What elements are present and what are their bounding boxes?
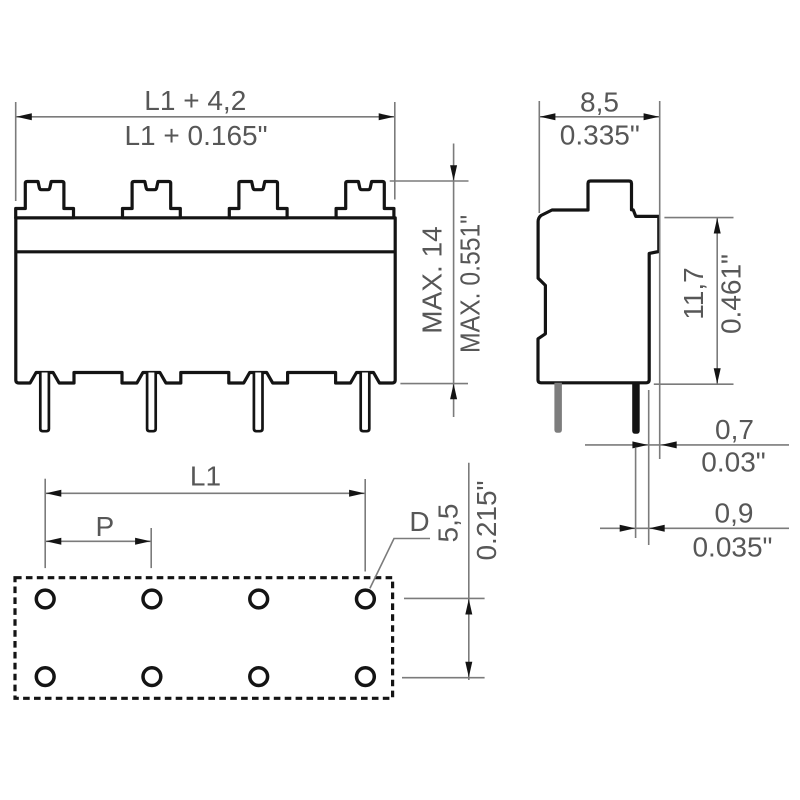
footprint: drill hole row 2 column 3 <box>250 668 268 686</box>
svg-text:L1 + 4,2: L1 + 4,2 <box>144 85 246 116</box>
svg-text:8,5: 8,5 <box>580 87 619 118</box>
dimension MAX.14 : upper arrowhead (points down) <box>450 165 457 181</box>
dimension 0,9 : right-pointing arrowhead <box>620 525 636 532</box>
front view: internal horizontal rib line <box>16 250 395 253</box>
side view: housing outline <box>538 181 659 383</box>
dimension 5,5 : bottom arrowhead <box>465 662 472 678</box>
front view: solder pin 3 <box>254 373 263 432</box>
dimension L1 : right arrowhead <box>349 490 365 497</box>
front view: solder pin 4 <box>361 373 370 432</box>
dimension 11,7 : bottom extension line <box>654 383 734 385</box>
dimension L1 : dimension line <box>46 492 365 494</box>
dimension 11,7 : top arrowhead <box>714 218 721 234</box>
dimension 0,7 : right-pointing arrowhead <box>632 441 648 448</box>
dimension 8,5 : dimension line <box>540 116 659 118</box>
dimension 5,5 : vertical dimension line <box>468 463 470 680</box>
dimension 0,7 : pin-center extension line <box>635 448 637 538</box>
svg-text:D: D <box>409 506 429 537</box>
front view: solder pin 1 <box>40 373 49 432</box>
dimension L1+4,2 : left extension line <box>15 102 17 201</box>
dimension 8,5 : right arrowhead <box>644 113 660 120</box>
dimension MAX.14 : bottom extension line <box>400 383 468 385</box>
svg-text:0.335": 0.335" <box>560 120 640 151</box>
dimension P : right extension line <box>150 528 152 568</box>
svg-text:0.03": 0.03" <box>701 447 765 478</box>
front view: terminal block body outline <box>16 218 395 383</box>
dimension 0,7 : left extension line (body edge) <box>648 390 650 545</box>
dimension 0,9 : left-pointing arrowhead <box>649 525 665 532</box>
svg-text:0.035": 0.035" <box>692 532 772 563</box>
front view: spring clamp tower 2 <box>123 182 181 218</box>
svg-text:L1: L1 <box>190 461 221 492</box>
dimension 11,7 : vertical dimension line <box>716 218 718 385</box>
dimension MAX.14 : vertical dimension line <box>453 144 455 418</box>
dimension 0,9 : dimension line <box>600 527 789 529</box>
dimension 5,5 : top extension line <box>404 597 485 599</box>
svg-text:0.461": 0.461" <box>716 254 747 334</box>
dimension 0,7 : left-pointing arrowhead <box>661 441 677 448</box>
side view: front solder pin (black) <box>632 383 640 434</box>
front view: spring clamp tower 3 <box>229 182 287 218</box>
svg-text:5,5: 5,5 <box>433 504 464 543</box>
dimension 11,7 : top extension line <box>664 217 733 219</box>
footprint: drill hole row 2 column 1 <box>36 668 54 686</box>
dimension L1 : right extension line <box>364 479 366 572</box>
dimension L1+4,2 : right arrowhead <box>379 113 395 120</box>
svg-text:0,9: 0,9 <box>715 497 754 528</box>
dimension MAX.14 : lower arrowhead (points up) <box>450 384 457 400</box>
dimension L1/P : shared left extension line <box>44 479 46 568</box>
dimension 5,5 : top arrowhead <box>465 599 472 615</box>
dimension 5,5 : bottom extension line <box>402 677 485 679</box>
footprint: drill hole row 1 column 1 <box>36 590 54 608</box>
dimension P : right arrowhead <box>135 538 151 545</box>
dimension P : dimension line <box>46 540 151 542</box>
footprint: drill hole row 2 column 2 <box>143 668 161 686</box>
dimension 8,5 : right extension line (long, shared) <box>659 101 661 459</box>
footprint: drill hole row 2 column 4 <box>357 668 375 686</box>
footprint: drill hole row 1 column 4 <box>357 590 375 608</box>
side view: rear solder pin (gray) <box>554 383 562 433</box>
dimension L1+4,2 : left arrowhead <box>16 113 32 120</box>
dimension L1+4,2 : dimension line <box>16 116 394 118</box>
front view: solder pin 2 <box>147 373 156 432</box>
svg-text:0.215": 0.215" <box>471 480 502 560</box>
footprint: drill hole row 1 column 3 <box>250 590 268 608</box>
dimension 0,7 : dimension line <box>585 444 789 446</box>
dimension L1 : left arrowhead <box>46 490 62 497</box>
dimension MAX.14 : top extension line <box>390 180 469 182</box>
svg-text:L1 + 0.165": L1 + 0.165" <box>124 120 267 151</box>
label D leader line <box>370 539 430 589</box>
dimension 11,7 : bottom arrowhead <box>714 368 721 384</box>
svg-text:MAX. 14: MAX. 14 <box>417 226 448 333</box>
svg-text:0,7: 0,7 <box>715 414 754 445</box>
footprint: drill hole row 1 column 2 <box>143 590 161 608</box>
footprint: dashed drilling-plan rectangle <box>15 578 393 699</box>
svg-text:P: P <box>95 511 114 542</box>
front view: spring clamp tower 1 <box>16 182 74 218</box>
dimension P : left arrowhead <box>46 538 62 545</box>
svg-text:MAX. 0.551": MAX. 0.551" <box>455 215 486 353</box>
dimension 8,5 : left extension line <box>538 101 540 213</box>
dimension L1+4,2 : right extension line <box>394 102 396 200</box>
front view: spring clamp tower 4 <box>336 182 394 218</box>
svg-text:11,7: 11,7 <box>678 267 709 319</box>
dimension 8,5 : left arrowhead <box>540 113 556 120</box>
